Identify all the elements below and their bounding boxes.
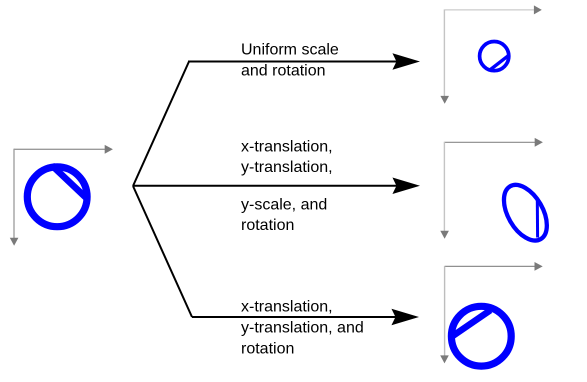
middle arrowhead xyxy=(393,178,418,193)
top arrowhead xyxy=(393,54,418,69)
translated rotated shape circle xyxy=(451,306,511,366)
svg-text:rotation: rotation xyxy=(241,341,294,358)
svg-text:y-translation, and: y-translation, and xyxy=(241,320,364,337)
left axes h-arrowhead xyxy=(105,145,113,154)
fan bottom diagonal wire xyxy=(133,186,192,317)
svg-text:rotation: rotation xyxy=(241,217,294,234)
mid-right axes v-arrowhead xyxy=(440,231,449,239)
bottom-right axes h-line xyxy=(445,265,535,267)
left axes v-arrowhead xyxy=(10,238,19,246)
bottom-right axes h-arrowhead xyxy=(535,262,543,271)
svg-text:y-translation,: y-translation, xyxy=(241,159,333,176)
svg-text:Uniform scale: Uniform scale xyxy=(241,41,339,58)
left axes h-line xyxy=(14,148,106,150)
scaled rotated shape circle xyxy=(480,42,509,71)
original shape circle xyxy=(27,167,87,227)
top arrow line xyxy=(188,61,398,63)
svg-text:x-translation,: x-translation, xyxy=(241,299,333,316)
svg-text:y-scale, and: y-scale, and xyxy=(241,197,327,214)
bottom-right axes v-arrowhead xyxy=(440,355,449,363)
top-right axes h-arrowhead xyxy=(534,5,542,14)
middle arrow line xyxy=(133,185,398,187)
mid-right axes h-arrowhead xyxy=(535,138,543,147)
scaled rotated shape chord xyxy=(490,55,510,70)
top-right axes h-line xyxy=(445,9,535,11)
mid-right axes h-line xyxy=(445,141,536,143)
svg-text:and rotation: and rotation xyxy=(241,62,326,79)
top-right axes v-line xyxy=(443,9,445,96)
top-right axes v-arrowhead xyxy=(440,96,449,104)
y-scaled rotated shape ellipse xyxy=(495,178,556,248)
fan top diagonal wire xyxy=(133,62,189,187)
mid-right axes v-line xyxy=(443,142,445,232)
svg-text:x-translation,: x-translation, xyxy=(241,139,333,156)
bottom arrowhead xyxy=(392,309,417,324)
left axes v-line xyxy=(13,149,15,239)
original shape chord xyxy=(52,165,88,199)
bottom arrow line xyxy=(192,316,397,318)
y-scaled rotated shape chord xyxy=(536,200,539,238)
bottom-right axes v-line xyxy=(444,266,446,356)
translated rotated shape chord xyxy=(451,310,491,337)
